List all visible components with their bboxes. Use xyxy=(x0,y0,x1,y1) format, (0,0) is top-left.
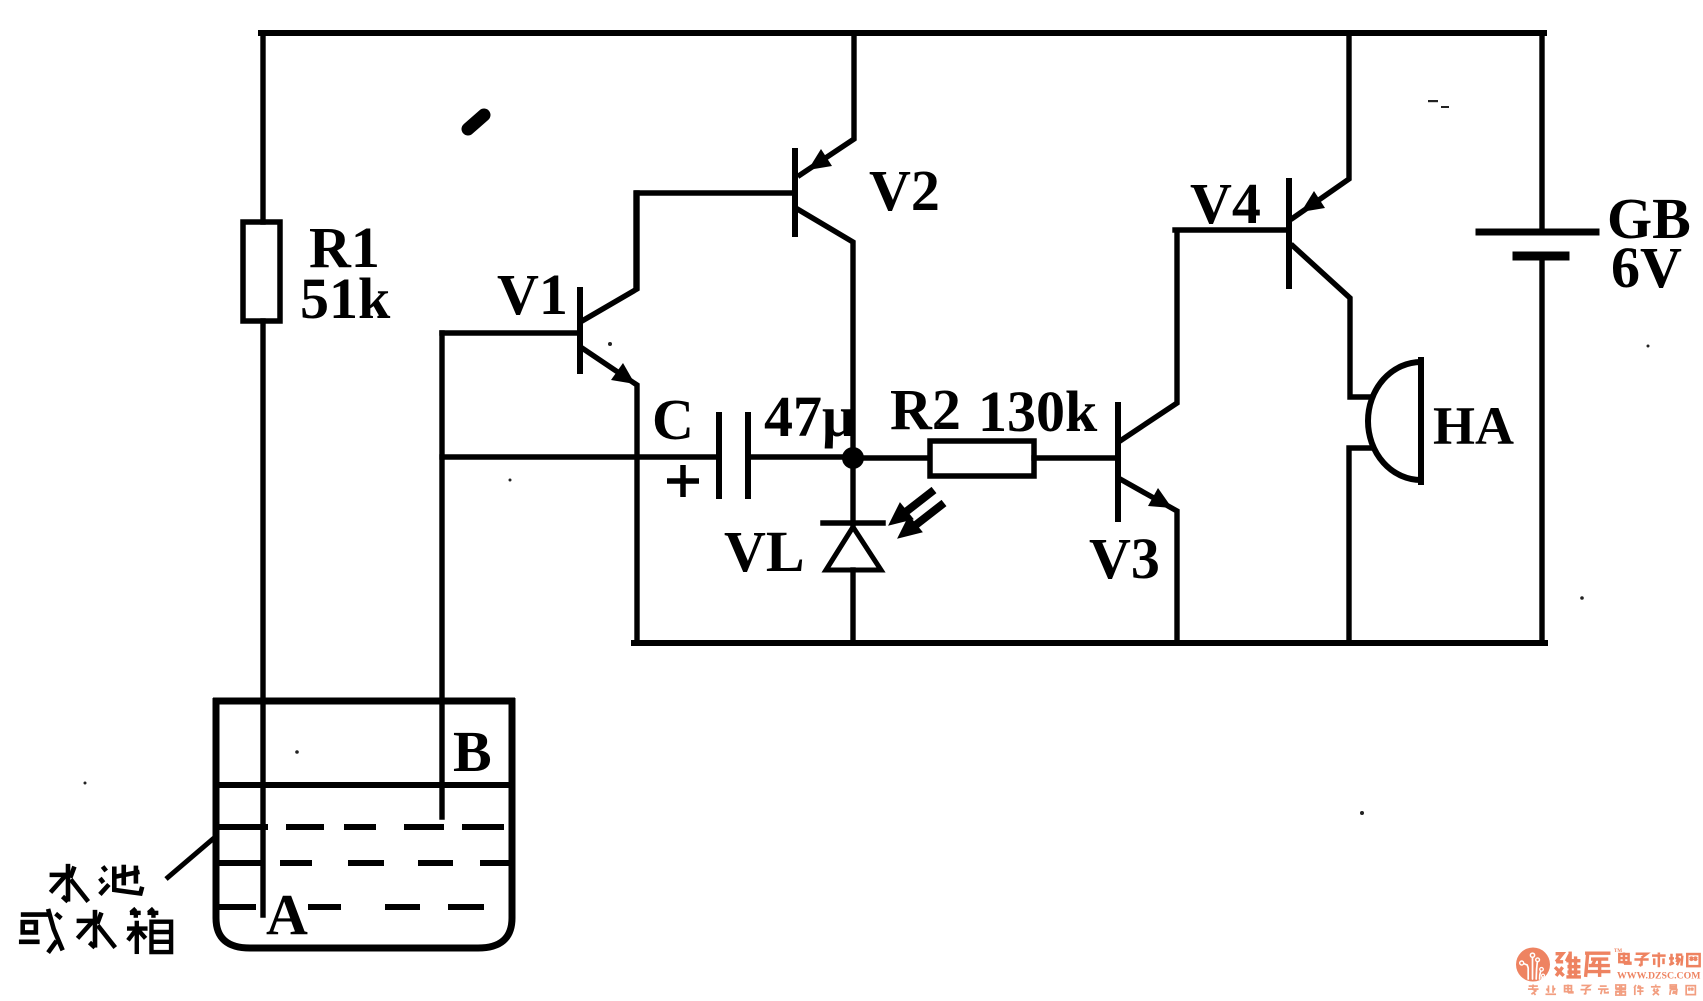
battery GB short plate xyxy=(1517,252,1565,261)
wire bottom rail xyxy=(634,640,1545,646)
wire V1 base xyxy=(442,330,578,335)
transistor V4 emitter xyxy=(1293,33,1349,218)
water dashes row 2 xyxy=(216,860,512,866)
svg-text:V2: V2 xyxy=(869,158,940,223)
wire node to R2 xyxy=(853,455,928,460)
tank leader line xyxy=(166,838,214,879)
svg-text:C: C xyxy=(652,387,694,452)
water tank body xyxy=(216,698,512,948)
capacitor plus sign xyxy=(667,465,699,497)
transistor V4 collector xyxy=(1293,246,1371,397)
LED VL lead lower xyxy=(850,570,855,643)
svg-text:VL: VL xyxy=(724,519,805,584)
LED VL triangle xyxy=(826,527,881,570)
svg-text:HA: HA xyxy=(1433,396,1514,456)
svg-text:V1: V1 xyxy=(497,262,568,327)
transistor V3 collector xyxy=(1120,232,1177,441)
svg-text:6V: 6V xyxy=(1611,235,1682,300)
wire top rail xyxy=(261,30,1544,36)
wire electrode A (left rail lower) xyxy=(260,321,265,915)
transistor V4 emitter arrow xyxy=(1301,191,1325,212)
water dashes row 1 xyxy=(216,824,504,830)
label huoshuixiang (or water tank) xyxy=(19,908,171,954)
resistor R1 xyxy=(243,222,280,321)
transistor V2 emitter arrow xyxy=(808,149,832,170)
transistor V1 bar xyxy=(577,290,583,371)
wire cap to node xyxy=(751,454,853,459)
transistor V2 collector xyxy=(799,210,853,457)
water dashes row 3 xyxy=(216,904,484,910)
battery GB long plate xyxy=(1479,229,1596,236)
svg-text:47μ: 47μ xyxy=(764,384,855,449)
transistor V4 bar xyxy=(1286,181,1292,286)
water tank rim line xyxy=(216,782,512,788)
transistor V1 emitter xyxy=(582,348,637,643)
wire left rail upper xyxy=(260,33,265,222)
svg-text:B: B xyxy=(453,719,492,784)
capacitor C right plate xyxy=(745,415,751,496)
water tank top edge xyxy=(213,698,515,705)
LED VL lead upper xyxy=(850,457,855,524)
wire R2 to V3 xyxy=(1034,455,1116,460)
svg-text:R2: R2 xyxy=(890,377,961,442)
svg-text:51k: 51k xyxy=(300,266,391,331)
svg-text:V3: V3 xyxy=(1089,526,1160,591)
ink blob speck xyxy=(468,115,484,129)
transistor V3 emitter arrow xyxy=(1148,488,1172,508)
transistor V3 emitter xyxy=(1120,479,1177,643)
wire battery top xyxy=(1539,33,1544,230)
LED light arrow 2 xyxy=(898,503,944,538)
node junction dot xyxy=(842,447,864,469)
speaker HA bracket xyxy=(1368,362,1421,480)
svg-text:WWW.DZSC.COM: WWW.DZSC.COM xyxy=(1617,971,1700,982)
transistor V2 emitter xyxy=(800,33,854,175)
transistor V3 bar xyxy=(1115,405,1121,519)
label shuichi (water pool) xyxy=(50,864,143,902)
wire V2 base xyxy=(636,193,793,288)
wire HA bottom xyxy=(1349,448,1371,643)
wire V4 base xyxy=(1175,227,1287,232)
wire electrode B xyxy=(439,333,444,817)
svg-text:130k: 130k xyxy=(978,379,1098,444)
svg-text:V4: V4 xyxy=(1190,171,1261,236)
transistor V2 bar xyxy=(792,151,798,234)
LED VL cathode bar xyxy=(823,520,883,526)
resistor R2 xyxy=(930,441,1034,476)
transistor V1 collector xyxy=(582,193,637,321)
wire C horizontal xyxy=(442,454,716,459)
speaker HA flat bar xyxy=(1418,360,1424,482)
transistor V1 emitter arrow xyxy=(611,363,635,384)
svg-text:A: A xyxy=(266,882,308,947)
LED light arrow 1 xyxy=(889,490,934,525)
capacitor C left plate xyxy=(716,415,722,496)
watermark logo xyxy=(1516,948,1700,996)
wire battery bottom xyxy=(1539,261,1544,643)
scan specks xyxy=(84,100,1650,815)
